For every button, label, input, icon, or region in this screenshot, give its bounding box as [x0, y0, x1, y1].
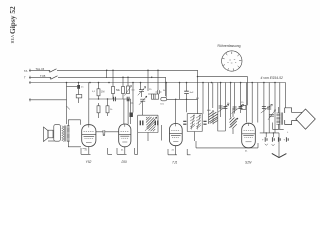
plug arrows: [265, 144, 275, 146]
node dots on buses: [66, 70, 276, 84]
resistor R6: [122, 77, 124, 86]
switch contact S3: [67, 106, 70, 110]
tube socket pinout circle: [222, 51, 242, 71]
oscillator transformer coil: [209, 110, 218, 124]
svg-text:+: +: [284, 139, 286, 142]
wire drop x133: [131, 83, 134, 104]
trimmer CT1: [241, 105, 246, 109]
wire row4: [31, 99, 67, 101]
wire drop x66.5: [66, 83, 68, 125]
svg-text:25: 25: [149, 89, 152, 91]
variable capacitor VC2 gang: [233, 107, 243, 110]
svg-text:50k: 50k: [116, 89, 121, 92]
svg-text:15: 15: [227, 103, 230, 105]
svg-text:2n: 2n: [81, 87, 84, 89]
svg-text:460: 460: [207, 110, 211, 112]
svg-text:TA: TA: [24, 69, 28, 73]
svg-text:0,1: 0,1: [92, 91, 96, 93]
potentiometer P1: [127, 77, 129, 86]
svg-text:1M: 1M: [101, 91, 104, 94]
IF transformer T3 frame: [187, 114, 202, 132]
svg-text:Dm: Dm: [161, 104, 165, 106]
wire drop comb right of tube3: [203, 83, 252, 132]
wire row2 left: [31, 76, 51, 78]
svg-text:1k: 1k: [110, 109, 113, 111]
IF transformer T1 frame: [138, 115, 158, 132]
wire from jack: [167, 98, 198, 100]
svg-text:D5I: D5I: [122, 160, 127, 164]
wire drop x106.7: [106, 70, 108, 78]
wire L3 long bus: [31, 82, 286, 84]
tube V2 pin wires: [117, 133, 138, 155]
svg-text:T: T: [24, 76, 26, 80]
capacitor C5: [156, 90, 162, 94]
wire IFT1 bottom lead: [147, 133, 149, 142]
svg-text:+: +: [262, 139, 264, 142]
resistor R4: [106, 106, 109, 113]
svg-text:S2N: S2N: [245, 161, 252, 165]
svg-text:T.05: T.05: [40, 74, 46, 78]
wire tube3 grid drop: [175, 99, 177, 123]
svg-text:41: 41: [172, 150, 175, 152]
wire L2 bus: [58, 77, 166, 96]
tube V1: [82, 125, 96, 147]
antenna coil L4: [276, 113, 280, 124]
battery B2: [272, 137, 274, 142]
wire osc feed: [198, 77, 248, 106]
terminal row3: [29, 81, 31, 84]
capacitor C6: [140, 121, 143, 126]
wire under tube V4: [196, 141, 258, 148]
wire transformer to top: [68, 120, 81, 147]
wire IFT2 bottom lead: [194, 132, 196, 142]
coil L2b hatched: [196, 115, 201, 130]
svg-text:Y52: Y52: [86, 160, 92, 164]
oscillator coil L3 hatched: [229, 118, 238, 129]
variable capacitor VC1 gang: [219, 106, 228, 109]
antenna coil core: [281, 113, 282, 125]
svg-text:Röhrenfassung: Röhrenfassung: [218, 44, 241, 48]
svg-text:0,1: 0,1: [132, 90, 136, 92]
ground arrow: [272, 153, 287, 157]
wire drop x186.5: [186, 83, 188, 113]
wire tube V2 top: [124, 99, 128, 124]
svg-text:41: 41: [121, 150, 124, 152]
transformer secondary winding: [67, 126, 70, 142]
svg-text:5nF: 5nF: [190, 92, 194, 94]
svg-text:41: 41: [245, 151, 248, 153]
resistor R1: [78, 89, 80, 95]
antenna trimmer VC3: [269, 114, 274, 116]
capacitor C2: [114, 97, 116, 101]
tube V2: [119, 124, 131, 147]
variable capacitor VC4: [139, 90, 144, 92]
svg-text:7J1: 7J1: [172, 161, 177, 165]
svg-text:0,1: 0,1: [196, 98, 200, 100]
wire drops far right: [258, 83, 286, 133]
transformer core: [65, 126, 66, 142]
wire battery bus: [260, 132, 279, 134]
variable capacitor VC3 gang: [262, 107, 271, 110]
capacitor C10: [203, 121, 206, 124]
capacitor C9: [183, 121, 186, 124]
capacitor C13 box: [152, 94, 159, 99]
coil L1 hatched core: [145, 117, 157, 132]
svg-text:TAL 15: TAL 15: [36, 67, 45, 71]
switch S2: [51, 76, 58, 80]
misc value labels: [81, 87, 289, 153]
svg-text:15: 15: [241, 102, 244, 104]
coupling network between V1 V2: [96, 130, 119, 134]
tube V3 pin wires: [168, 146, 191, 155]
output transformer T2 primary: [62, 126, 64, 142]
wire antenna bottom: [273, 123, 284, 130]
svg-text:4 von ES54-52: 4 von ES54-52: [261, 76, 284, 80]
wire drop x179.5: [179, 83, 181, 100]
svg-text:Gipsy 52: Gipsy 52: [8, 6, 17, 34]
wire row1 left: [31, 69, 50, 71]
capacitor C3: [127, 97, 129, 101]
wire L1 bus: [57, 70, 198, 113]
wire to C1: [67, 85, 78, 87]
wire drop x166.2: [165, 83, 167, 98]
frame antenna arrow: [285, 108, 302, 125]
frame antenna diamond: [296, 109, 316, 129]
capacitor C1 blob: [78, 83, 80, 86]
tube V1 pin wires: [81, 147, 112, 155]
jack J1: [161, 97, 167, 100]
wire cap C7 down: [161, 125, 163, 141]
coil L2a hatched: [190, 115, 195, 130]
terminal row4: [29, 98, 31, 101]
battery B3: [278, 137, 280, 142]
wire audio row: [89, 98, 131, 100]
capacitor C4 blob: [130, 113, 133, 118]
svg-text:L: L: [287, 132, 289, 134]
svg-text:HEA: HEA: [10, 35, 15, 44]
resistor R5: [112, 70, 114, 86]
capacitor C7: [155, 121, 158, 126]
wire speaker loop bottom: [48, 140, 55, 142]
variable capacitor VC5: [140, 99, 145, 101]
tube V3: [169, 124, 182, 146]
wire drop x90 to tube V1: [88, 83, 90, 125]
resistor R2: [98, 83, 100, 89]
resistor R3: [98, 103, 100, 106]
svg-text:41: 41: [85, 150, 88, 152]
loudspeaker LS: [44, 127, 49, 142]
output loop: [54, 125, 61, 142]
switch S1: [50, 69, 57, 73]
resistor R8: [147, 70, 149, 91]
capacitor C8: [184, 91, 189, 93]
tube V4: [242, 123, 256, 148]
